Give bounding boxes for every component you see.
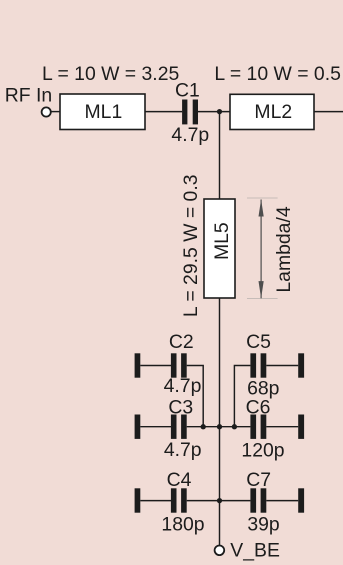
microstrip ML2 (230, 94, 314, 129)
terminal V_BE (215, 546, 225, 556)
svg-text:C5: C5 (246, 331, 271, 353)
capacitor C4 (135, 488, 141, 512)
svg-text:C7: C7 (246, 469, 271, 491)
wire ML2 to right edge (314, 111, 343, 113)
svg-text:4.7p: 4.7p (164, 375, 202, 397)
svg-text:Lambda/4: Lambda/4 (273, 206, 295, 292)
wire ML5 down to V_BE (219, 298, 221, 545)
svg-text:C2: C2 (169, 331, 194, 353)
svg-text:120p: 120p (241, 440, 284, 462)
capacitor C2 (135, 353, 141, 377)
svg-text:C3: C3 (168, 397, 193, 419)
node center row2 (217, 424, 222, 429)
wire C4 to center (187, 500, 220, 502)
svg-text:L = 10 W = 3.25: L = 10 W = 3.25 (42, 63, 179, 85)
svg-text:ML5: ML5 (211, 222, 233, 260)
svg-text:C1: C1 (175, 80, 200, 102)
microstrip ML1 (60, 94, 145, 130)
svg-text:V_BE: V_BE (230, 540, 280, 562)
svg-text:4.7p: 4.7p (164, 439, 202, 461)
svg-text:C6: C6 (246, 397, 271, 419)
wire C2 to node row2 (187, 366, 204, 427)
wire terminal to ML1 (51, 111, 60, 113)
svg-text:39p: 39p (247, 513, 279, 535)
node C2/C3 (201, 424, 206, 429)
wire C3 to center (187, 426, 220, 428)
microstrip ML5 (204, 199, 235, 298)
node junction C1/ML2/ML5 (217, 109, 222, 114)
terminal RF In (42, 107, 51, 116)
svg-text:ML2: ML2 (254, 101, 292, 123)
wire C1 to ML2 (198, 111, 230, 113)
svg-text:L = 10 W = 0.5: L = 10 W = 0.5 (214, 63, 340, 85)
svg-text:180p: 180p (161, 513, 204, 535)
dimension extension line top (247, 197, 278, 199)
wire junction down to ML5 (219, 112, 221, 199)
svg-text:L = 29.5 W = 0.3: L = 29.5 W = 0.3 (180, 174, 202, 317)
svg-text:C4: C4 (167, 469, 192, 491)
capacitor C6 (220, 426, 251, 428)
capacitor C3 (135, 415, 141, 439)
node center row3 (217, 498, 222, 503)
capacitor C1 (182, 100, 187, 125)
svg-text:4.7p: 4.7p (171, 124, 209, 146)
capacitor C5 (234, 366, 250, 427)
capacitor C7 (220, 500, 251, 502)
dimension arrow Lambda/4 (260, 200, 262, 299)
dimension extension line bottom (247, 298, 278, 300)
svg-text:ML1: ML1 (85, 101, 123, 123)
wire ML1 to C1 (145, 111, 182, 113)
svg-text:RF In: RF In (5, 84, 52, 106)
node C5/C6 (232, 424, 237, 429)
